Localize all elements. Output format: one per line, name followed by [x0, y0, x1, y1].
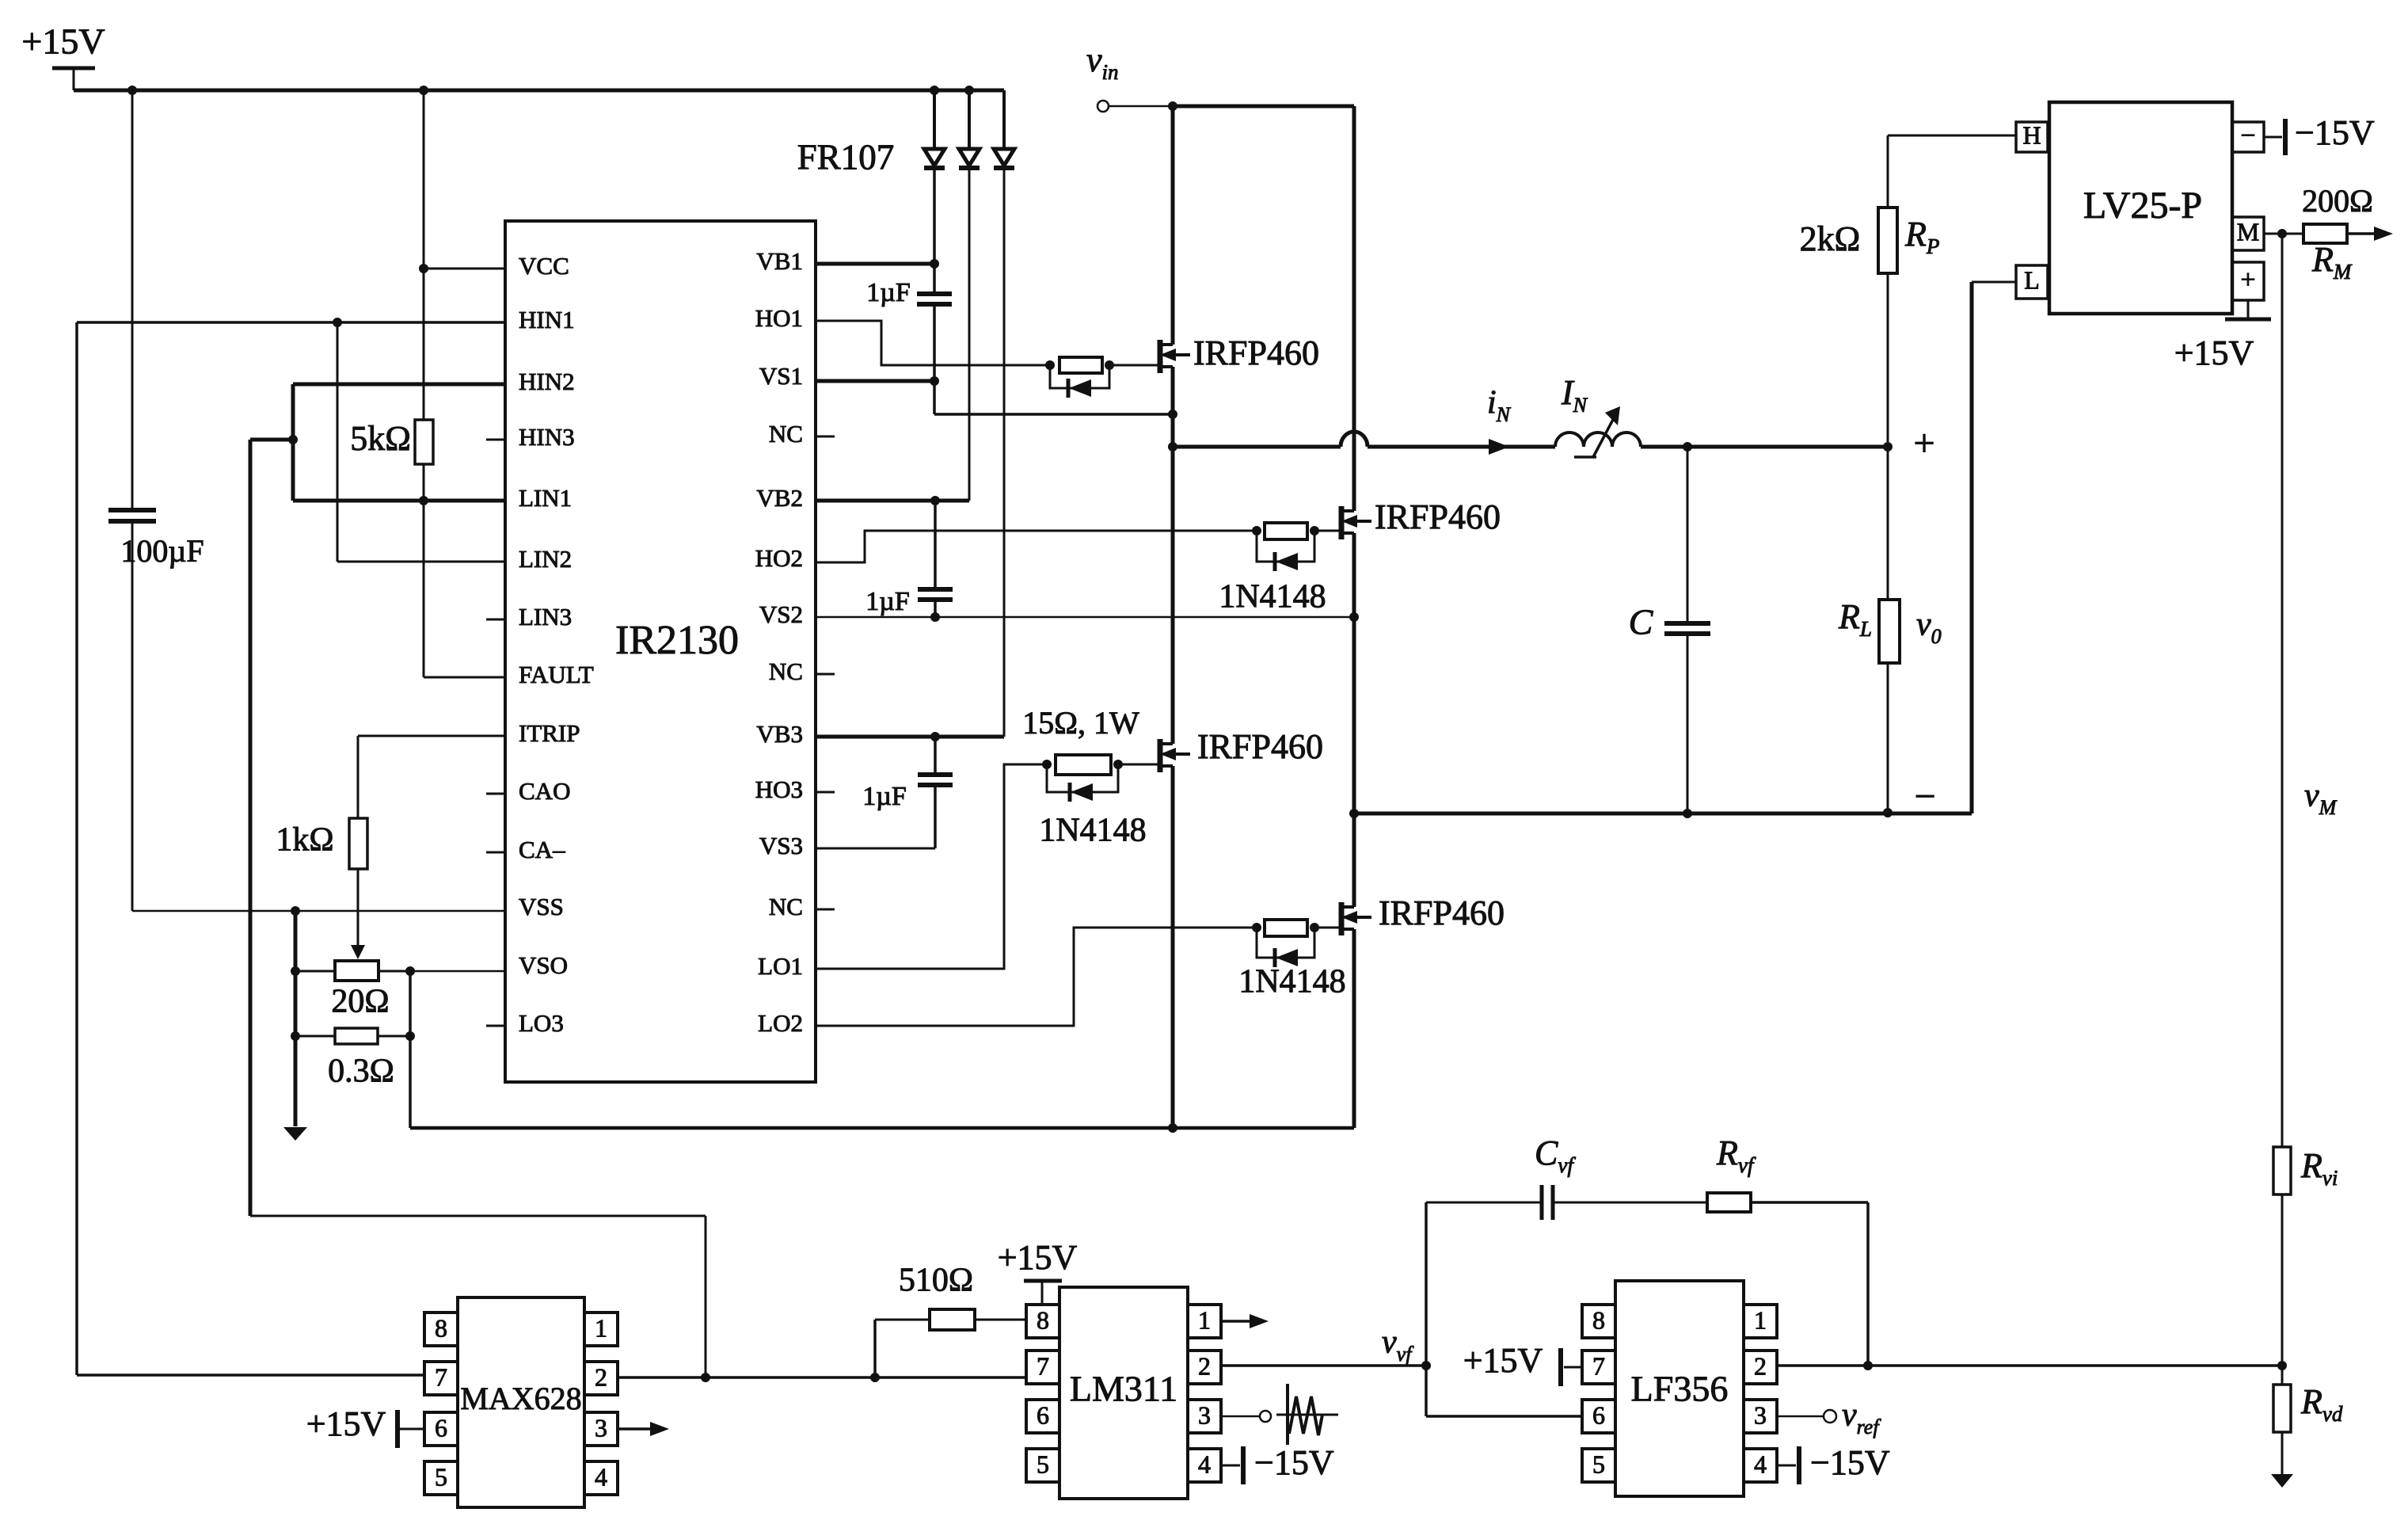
- svg-text:7: 7: [1592, 1351, 1605, 1380]
- LV25-P pin M: [2232, 217, 2264, 250]
- svg-text:HO2: HO2: [755, 544, 803, 572]
- wire: MAX628 pin2 to LM311 pin7: [618, 1373, 1026, 1382]
- svg-text:1µF: 1µF: [866, 278, 911, 307]
- resistor 200 ohm R_M: [2302, 183, 2393, 284]
- svg-text:VS3: VS3: [759, 832, 803, 859]
- resistor Q2 gate: [1252, 523, 1341, 539]
- wire: Q2 source chain down: [1349, 533, 1359, 907]
- resistor 1k ohm: [276, 818, 367, 869]
- wire: Q3 source down to return rail: [1171, 766, 1175, 1128]
- resistor R_vf feedback: [1707, 1133, 1868, 1366]
- svg-text:VB2: VB2: [756, 484, 803, 512]
- svg-text:−15V: −15V: [1254, 1443, 1334, 1482]
- LF356 pin 6: [1582, 1400, 1615, 1433]
- svg-text:M: M: [2237, 217, 2259, 246]
- diode FR107 #1: [924, 90, 945, 168]
- wire: VS3: [816, 848, 935, 850]
- wire: L pin to v0 minus: [1972, 282, 2016, 813]
- ground arrow below shunt: [283, 1127, 307, 1141]
- svg-text:−: −: [2240, 121, 2255, 150]
- wire: Q4 source to return rail: [1352, 929, 1356, 1128]
- svg-text:VS1: VS1: [759, 362, 803, 390]
- svg-text:CAO: CAO: [519, 777, 570, 805]
- svg-text:15Ω, 1W: 15Ω, 1W: [1022, 705, 1139, 741]
- supply +15V at LF356 pin7: [1463, 1341, 1582, 1386]
- node v_in input terminal: [1086, 40, 1119, 112]
- LF356 pin 2: [1744, 1351, 1777, 1384]
- wire: R_vd to ground arrow: [2271, 1366, 2293, 1488]
- capacitor 1uF (VB2-VS2): [865, 501, 953, 617]
- svg-text:1kΩ: 1kΩ: [276, 822, 333, 859]
- wire: bootstrap column 1 to VB1: [930, 166, 939, 294]
- wire: ITRIP to 1k resistor: [358, 736, 505, 818]
- LM311 pin 8: [1026, 1305, 1059, 1338]
- svg-text:+15V: +15V: [2174, 333, 2254, 372]
- svg-text:FR107: FR107: [797, 137, 895, 177]
- svg-text:CA–: CA–: [519, 836, 565, 863]
- svg-text:IR2130: IR2130: [615, 618, 739, 663]
- svg-text:3: 3: [1754, 1400, 1767, 1429]
- LM311 pin 6: [1026, 1400, 1059, 1433]
- wire: v_vf riser and into pin6: [1426, 1202, 1582, 1416]
- arrow i_N current: [1487, 385, 1512, 455]
- svg-text:2: 2: [595, 1362, 607, 1391]
- svg-text:3: 3: [1198, 1400, 1211, 1429]
- svg-text:VS2: VS2: [759, 600, 803, 628]
- svg-text:LF356: LF356: [1631, 1369, 1729, 1409]
- wire: v_M sense line: [2282, 234, 2338, 1147]
- svg-text:7: 7: [1037, 1351, 1049, 1380]
- transistor Q2 IRFP460: [1341, 497, 1501, 539]
- LV25-P pin minus: [2232, 121, 2264, 152]
- svg-text:1µF: 1µF: [862, 782, 907, 811]
- svg-text:IRFP460: IRFP460: [1379, 893, 1505, 932]
- svg-text:VSS: VSS: [519, 893, 564, 920]
- IR2130 unconnected pin stubs: [486, 436, 835, 1026]
- wire: bottom rail of load: [1354, 808, 1972, 818]
- svg-text:5: 5: [1592, 1450, 1605, 1478]
- svg-text:LIN3: LIN3: [519, 603, 572, 631]
- MAX628 pin 7: [424, 1362, 458, 1395]
- svg-text:HO1: HO1: [755, 304, 803, 332]
- wire: v_in to high-side drains: [1109, 101, 1354, 111]
- resistor 0.3 ohm shunt: [295, 1028, 410, 1090]
- diode 1N4148 antiparallel Q3: [1039, 764, 1146, 849]
- wire: R_vi to summing node: [2277, 1194, 2287, 1370]
- svg-text:LV25-P: LV25-P: [2083, 185, 2202, 227]
- svg-text:510Ω: 510Ω: [899, 1263, 973, 1299]
- svg-text:+15V: +15V: [998, 1238, 1078, 1277]
- diode 1N4148 antiparallel Q1: [1050, 365, 1109, 398]
- labels v_0 plus minus: [1913, 422, 1941, 817]
- IC U1 IR2130 three-phase gate driver: [505, 221, 816, 1082]
- wire: LF356 pin2 to divider: [1777, 1361, 2282, 1370]
- svg-text:−: −: [1914, 775, 1935, 817]
- svg-text:1N4148: 1N4148: [1238, 964, 1345, 1000]
- svg-text:L: L: [2024, 265, 2040, 294]
- svg-text:0.3Ω: 0.3Ω: [328, 1053, 394, 1090]
- wire: Q1 drain column: [1171, 106, 1175, 345]
- svg-text:+15V: +15V: [306, 1404, 386, 1443]
- svg-text:LO2: LO2: [758, 1009, 803, 1037]
- LM311 pin 2: [1188, 1351, 1221, 1384]
- svg-text:20Ω: 20Ω: [331, 984, 389, 1020]
- wire: Q2 drain column from v_in: [1352, 106, 1356, 511]
- wire: Q1 source to output node: [1168, 367, 1177, 744]
- wire: VS1 to switch node: [816, 376, 1177, 419]
- wire: 5k bottom to LIN1 and FAULT: [419, 464, 505, 677]
- diode FR107 #2: [959, 90, 980, 168]
- wire: HIN2 to LIN1 bracket: [288, 384, 505, 501]
- transistor Q4 IRFP460: [1341, 893, 1505, 935]
- svg-text:+15V: +15V: [1463, 1341, 1543, 1380]
- svg-text:4: 4: [595, 1462, 607, 1491]
- svg-text:1: 1: [595, 1313, 607, 1342]
- svg-text:2kΩ: 2kΩ: [1800, 219, 1861, 258]
- svg-text:LIN2: LIN2: [519, 545, 572, 573]
- svg-text:LM311: LM311: [1070, 1369, 1177, 1409]
- MAX628 pin 3: [584, 1412, 618, 1446]
- IR2130 right pin labels: [755, 247, 803, 1037]
- svg-text:−15V: −15V: [2295, 113, 2375, 152]
- wire: HO2 to Q2 gate resistor: [816, 531, 1257, 562]
- svg-text:HIN3: HIN3: [519, 423, 575, 451]
- wire: HIN1 net to MAX628 pin7: [77, 318, 505, 1375]
- svg-text:+: +: [1913, 422, 1934, 464]
- wire: bootstrap column 2 to VB2: [968, 166, 971, 501]
- MAX628 pin 1: [584, 1313, 618, 1346]
- supply +15V at MAX628 pin6: [306, 1404, 424, 1448]
- diode 1N4148 antiparallel Q4: [1238, 928, 1345, 1000]
- LM311 pin 4: [1188, 1449, 1221, 1482]
- wire: power return rail to MOSFET sources: [410, 1123, 1354, 1133]
- diode FR107 #3: [994, 90, 1014, 168]
- svg-text:8: 8: [435, 1313, 447, 1342]
- svg-text:3: 3: [595, 1413, 607, 1442]
- svg-text:2: 2: [1754, 1351, 1767, 1380]
- svg-text:5kΩ: 5kΩ: [350, 419, 411, 458]
- LF356 pin 1: [1744, 1305, 1777, 1338]
- capacitor C output filter: [1629, 447, 1710, 813]
- svg-text:2: 2: [1198, 1351, 1211, 1380]
- svg-text:VSO: VSO: [519, 951, 568, 979]
- wire: H pin to R_P: [1888, 135, 2016, 208]
- svg-text:4: 4: [1198, 1450, 1211, 1478]
- supply +15V at LM311 pin8: [998, 1238, 1078, 1305]
- wire: VS2: [816, 612, 1359, 622]
- LF356 pin 7: [1582, 1351, 1615, 1384]
- MAX628 pin 6: [424, 1412, 458, 1446]
- wire: M pin output: [2264, 229, 2303, 238]
- diode 1N4148 antiparallel Q2: [1219, 531, 1326, 615]
- svg-text:VB3: VB3: [756, 720, 803, 748]
- MAX628 pin 8: [424, 1313, 458, 1346]
- capacitor 1uF (VB3-VS3): [862, 737, 953, 848]
- transistor Q3 IRFP460: [1160, 727, 1323, 772]
- svg-text:H: H: [2022, 120, 2041, 149]
- supply +15V at LV25-P plus pin: [2174, 300, 2271, 372]
- svg-text:HO3: HO3: [755, 775, 803, 803]
- LF356 pin 4: [1744, 1449, 1777, 1482]
- supply -15V at LM311 pin4: [1221, 1443, 1334, 1484]
- wire: VSO to shunt right terminals: [405, 966, 505, 1128]
- svg-text:C: C: [1629, 602, 1654, 642]
- wire: LO2 riser to Q4 gate resistor: [816, 928, 1257, 1026]
- resistor Q1 gate (with junctions): [1045, 357, 1159, 373]
- wire: VSS net: [132, 906, 505, 916]
- wire: output i_N with crossover hump: [1173, 432, 1555, 447]
- wire: VSS branch down to shunt left side: [291, 911, 300, 1126]
- svg-text:IRFP460: IRFP460: [1193, 333, 1319, 372]
- svg-text:4: 4: [1754, 1450, 1767, 1478]
- LV25-P pin H: [2016, 120, 2048, 152]
- wire: VB3: [816, 732, 1004, 741]
- svg-text:−15V: −15V: [1810, 1443, 1890, 1482]
- svg-text:VCC: VCC: [519, 252, 569, 280]
- node v_ref at LF356 pin3: [1777, 1397, 1881, 1438]
- svg-text:IRFP460: IRFP460: [1375, 497, 1501, 536]
- inductor I_N (variable): [1555, 373, 1641, 457]
- LV25-P pin plus: [2232, 262, 2264, 300]
- svg-text:NC: NC: [769, 893, 803, 920]
- svg-text:100µF: 100µF: [120, 533, 204, 569]
- svg-text:8: 8: [1592, 1305, 1605, 1334]
- wiper arrow from 1k onto 20 ohm pot: [351, 869, 365, 959]
- svg-text:1: 1: [1754, 1305, 1767, 1334]
- resistor 15 ohm 1W Q3 gate: [1022, 705, 1159, 775]
- resistor 510 ohm: [875, 1263, 1026, 1377]
- LF356 pin 3: [1744, 1400, 1777, 1433]
- node: LM311 pin3 triangle-wave input: [1221, 1384, 1338, 1445]
- wire: HIN2/LIN1 net down to MAX628 pin2: [250, 440, 706, 1375]
- MAX628 pin 2: [584, 1362, 618, 1395]
- LF356 pin 8: [1582, 1305, 1615, 1338]
- wire: VCC to +15V rail: [419, 90, 505, 420]
- capacitor 100uF: [108, 90, 204, 911]
- resistor R_L load: [1838, 447, 1900, 813]
- svg-text:1: 1: [1198, 1305, 1211, 1334]
- svg-text:1N4148: 1N4148: [1219, 579, 1326, 615]
- svg-text:ITRIP: ITRIP: [519, 719, 580, 747]
- svg-text:+15V: +15V: [21, 21, 105, 62]
- svg-text:HIN1: HIN1: [519, 306, 575, 333]
- svg-text:LIN1: LIN1: [519, 484, 572, 512]
- transistor Q1 IRFP460: [1160, 333, 1319, 373]
- wire: +15V rail: [74, 86, 1004, 95]
- svg-text:NC: NC: [769, 420, 803, 448]
- svg-text:1N4148: 1N4148: [1039, 813, 1146, 849]
- resistor R_P 2k primary: [1800, 208, 1940, 447]
- resistor R_vi: [2273, 1146, 2338, 1194]
- resistor R_vd: [2273, 1382, 2343, 1432]
- svg-text:6: 6: [1037, 1400, 1049, 1429]
- svg-text:LO3: LO3: [519, 1009, 564, 1037]
- wire: VB2: [816, 496, 969, 505]
- svg-text:6: 6: [435, 1413, 447, 1442]
- svg-text:IRFP460: IRFP460: [1197, 727, 1323, 766]
- LM311 pin 1: [1188, 1305, 1221, 1338]
- MAX628 pin 5: [424, 1461, 458, 1495]
- svg-text:VB1: VB1: [756, 247, 803, 275]
- capacitor 1uF (VB1-VS1): [866, 278, 952, 414]
- svg-text:5: 5: [1037, 1450, 1049, 1478]
- driver U2 MAX628: [458, 1297, 584, 1507]
- wire: LM311 pin1 output arrow: [1221, 1314, 1269, 1328]
- svg-text:7: 7: [435, 1362, 447, 1391]
- wire: LM311 pin2 v_vf to LF356: [1221, 1361, 1431, 1370]
- supply -15V at LF356 pin4: [1777, 1443, 1890, 1484]
- wire: MAX628 pin3 output arrow: [618, 1422, 669, 1436]
- svg-text:8: 8: [1037, 1305, 1049, 1334]
- LV25-P pin L: [2016, 265, 2048, 299]
- svg-text:LO1: LO1: [758, 952, 803, 980]
- LM311 pin 7: [1026, 1351, 1059, 1384]
- wire: bootstrap column 3 to VB3: [1003, 166, 1006, 737]
- svg-text:MAX628: MAX628: [460, 1381, 581, 1416]
- MAX628 pin 4: [584, 1461, 618, 1495]
- transducer LV25-P: [2049, 102, 2232, 314]
- resistor Q4 gate: [1252, 920, 1341, 936]
- svg-text:1µF: 1µF: [865, 587, 910, 616]
- supply -15V at LV25-P: [2264, 113, 2375, 155]
- comparator U3 LM311: [1059, 1287, 1188, 1499]
- IR2130 left pin labels: [519, 252, 594, 1037]
- svg-text:NC: NC: [769, 657, 803, 685]
- resistor 20 ohm: [295, 961, 410, 1020]
- wire: VB1: [816, 262, 934, 266]
- svg-text:6: 6: [1592, 1400, 1605, 1429]
- LM311 pin 3: [1188, 1400, 1221, 1433]
- capacitor C_vf feedback: [1426, 1133, 1707, 1220]
- +15V supply symbol top-left: [21, 21, 105, 90]
- svg-text:HIN2: HIN2: [519, 368, 575, 395]
- svg-text:5: 5: [435, 1462, 447, 1491]
- svg-text:FAULT: FAULT: [519, 661, 594, 688]
- resistor 5k ohm pull-up: [350, 419, 433, 464]
- wire: LO1 riser to Q3 gate resistor: [816, 764, 1047, 969]
- wire: HO1 to Q1 gate resistor: [816, 321, 1050, 365]
- svg-text:200Ω: 200Ω: [2302, 183, 2373, 219]
- wire: HIN1 branch to LIN2: [337, 322, 505, 562]
- svg-text:+: +: [2240, 265, 2255, 295]
- LF356 pin 5: [1582, 1449, 1615, 1482]
- wire: inductor to load: [1641, 442, 1893, 451]
- LM311 pin 5: [1026, 1449, 1059, 1482]
- op-amp U4 LF356: [1615, 1281, 1744, 1496]
